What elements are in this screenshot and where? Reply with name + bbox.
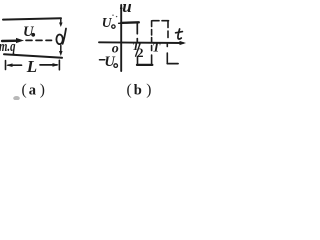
wire corner from top plate into d dimension [60,18,62,24]
subscript dot of U0 (figure a) [31,33,35,37]
dashed rise at T top seg [151,21,153,27]
subscript o of -U0 [114,64,118,68]
bottom plate [4,54,62,58]
svg-text:): ) [40,81,45,98]
x axis t [99,41,183,44]
dashed drop at 3T/2 below axis seg1 [166,44,168,47]
svg-text:U: U [104,54,116,70]
arrowhead L left [6,63,12,67]
arrowhead L right [53,63,59,67]
L dimension left tick [5,61,7,70]
svg-text:L: L [26,57,37,76]
label t [178,29,181,39]
smudge bottom left [13,96,20,100]
svg-text:2: 2 [137,45,144,60]
dashed drop at T/2 below axis seg [137,57,139,65]
y axis u [120,5,122,71]
dashed trajectory segment 1 [26,39,32,41]
velocity arrow of particle [2,40,18,43]
svg-text:(: ( [127,81,132,98]
dashed +U0 level T to 3T/2 seg2 [162,20,169,22]
svg-text:b: b [134,82,142,98]
x axis arrowhead [180,41,187,45]
L dimension right arrow line [40,64,57,66]
slash of T/2 [136,44,140,56]
ink speck 1 [112,15,113,16]
minus of -U0 [100,59,105,61]
L dimension right tick [58,60,60,70]
arrowhead velocity [16,38,24,43]
dashed drop at T/2 above axis seg2 [136,39,138,42]
dashed drop at T/2 above axis seg1 [136,23,138,34]
dashed drop at 3T/2 above axis seg1 [167,22,169,28]
svg-text:T: T [152,39,161,54]
dashed rise at T above axis seg2 [151,30,153,36]
dashed trajectory segment 3 [46,39,52,41]
dashed rise at T near axis seg [151,46,153,51]
dashed rise at T above axis seg1 [151,38,153,43]
svg-text:u: u [122,0,131,16]
dashed rise at T below axis seg [151,55,153,65]
svg-text:a: a [29,82,37,98]
top plate [3,18,61,19]
dashed trajectory segment 2 [36,39,42,41]
subscript o of U0 (graph) [112,25,115,28]
waveform -U0 solid segment T/2 to T [137,64,152,66]
arrowhead lower d-dimension (points down to bottom plate) [59,51,63,56]
svg-text:(: ( [22,81,27,98]
L dimension left arrow line [8,64,22,66]
waveform +U0 solid segment 0 to T/2 [121,21,139,24]
svg-text:): ) [146,81,151,98]
svg-text:m.q: m.q [0,39,16,55]
tick at +U0 on y axis [119,22,124,24]
dashed drop at 3T/2 above axis seg2 [167,31,169,38]
label d [56,35,62,45]
waveform -U0 level after 3T/2 [167,63,178,65]
svg-text:U: U [23,24,35,40]
arrowhead upper d-dimension (points down) [59,23,63,28]
wire lower d-dimension [60,46,62,53]
ink speck 2 [116,16,117,17]
y axis arrowhead [120,4,123,9]
dashed drop at 3T/2 below axis seg2 [166,53,168,63]
svg-text:U: U [102,15,113,30]
dashed +U0 level T to 3T/2 seg1 [153,20,160,22]
